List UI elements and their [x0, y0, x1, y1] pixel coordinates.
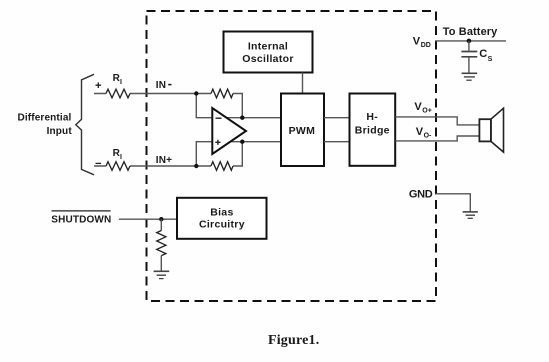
wire op-amp upper output to PWM	[226, 117, 281, 119]
wire capacitor to ground	[468, 58, 470, 73]
wire op-amp plus input	[196, 142, 215, 166]
svg-text:V: V	[413, 36, 421, 48]
node IN- junction	[194, 91, 198, 95]
svg-text:S: S	[488, 56, 493, 63]
op-amp U1	[212, 108, 246, 154]
svg-text:SHUTDOWN: SHUTDOWN	[51, 214, 111, 225]
resistor RI (bottom input)	[106, 162, 130, 171]
wire shutdown pulldown top	[160, 219, 162, 231]
label IN+	[156, 155, 172, 166]
wire PWM to H-Bridge upper	[324, 117, 350, 119]
resistor RI (top input)	[106, 89, 130, 98]
ground (CS)	[462, 73, 478, 80]
wire SHUTDOWN to bias	[119, 218, 177, 220]
block Internal Oscillator	[224, 32, 313, 73]
node VDD junction	[467, 39, 472, 44]
label VO-	[416, 126, 432, 140]
svg-text:To Battery: To Battery	[443, 26, 498, 38]
svg-text:Circuitry: Circuitry	[199, 219, 245, 231]
svg-text:IN+: IN+	[156, 155, 172, 166]
speaker	[479, 108, 503, 152]
wire IN- input line	[94, 93, 196, 95]
capacitor CS	[461, 52, 477, 57]
node IN+ junction	[194, 164, 198, 168]
wire VDD to battery	[436, 40, 507, 42]
wire oscillator to PWM	[302, 73, 304, 94]
label To Battery	[443, 26, 498, 38]
svg-text:Figure1.: Figure1.	[268, 333, 320, 348]
wire GND pin	[436, 194, 471, 212]
label IN-	[156, 80, 172, 91]
wire bottom feedback loop	[196, 142, 242, 166]
svg-text:Differential: Differential	[17, 113, 71, 124]
svg-text:PWM: PWM	[289, 125, 316, 137]
wire VO+ to speaker	[395, 117, 479, 125]
resistor feedback top	[211, 89, 233, 98]
label Differential Input	[17, 113, 72, 138]
svg-text:DD: DD	[421, 42, 431, 49]
wire op-amp lower output to PWM	[226, 141, 281, 143]
svg-text:H-: H-	[366, 111, 378, 123]
label CS	[479, 48, 492, 63]
label SHUTDOWN with overline	[51, 211, 111, 225]
svg-text:I: I	[120, 79, 122, 86]
label RI bottom	[113, 148, 122, 161]
resistor shutdown pulldown	[157, 231, 166, 256]
node shutdown junction	[159, 217, 163, 221]
svg-text:O-: O-	[424, 132, 432, 139]
svg-text:I: I	[120, 154, 122, 161]
svg-text:Bias: Bias	[210, 207, 233, 219]
node upper output junction	[240, 116, 244, 120]
wire junction to capacitor	[468, 41, 470, 51]
wire op-amp minus input	[196, 94, 215, 118]
label GND	[409, 189, 433, 201]
block PWM	[281, 94, 324, 167]
wire PWM to H-Bridge lower	[324, 141, 350, 143]
svg-text:IN: IN	[156, 80, 166, 91]
ground (GND pin)	[463, 212, 478, 218]
wire top feedback loop	[196, 94, 242, 118]
svg-text:V: V	[416, 126, 424, 138]
svg-text:Oscillator: Oscillator	[242, 53, 293, 65]
minus polarity mark (bottom input)	[96, 162, 102, 164]
svg-text:Internal: Internal	[248, 41, 288, 53]
block Bias Circuitry	[177, 198, 267, 239]
resistor feedback bottom	[211, 162, 233, 171]
svg-text:Input: Input	[47, 126, 73, 137]
label RI top	[113, 73, 122, 86]
block H-Bridge	[350, 94, 396, 166]
svg-text:GND: GND	[409, 189, 433, 201]
IC boundary dashed box	[147, 11, 437, 301]
svg-text:O+: O+	[422, 107, 432, 114]
label VDD	[413, 36, 431, 50]
svg-text:Bridge: Bridge	[355, 125, 390, 137]
plus polarity mark (top input)	[96, 82, 102, 88]
wire IN+ input line	[94, 165, 196, 167]
brace differential input	[76, 74, 94, 175]
svg-text:V: V	[414, 101, 422, 113]
caption Figure1.	[268, 333, 320, 348]
ground (shutdown resistor)	[154, 271, 170, 278]
wire resistor to ground	[160, 256, 162, 271]
svg-text:C: C	[479, 48, 487, 60]
wire VO- to speaker	[395, 136, 479, 141]
label VO+	[414, 101, 431, 115]
node lower output junction	[240, 140, 244, 144]
